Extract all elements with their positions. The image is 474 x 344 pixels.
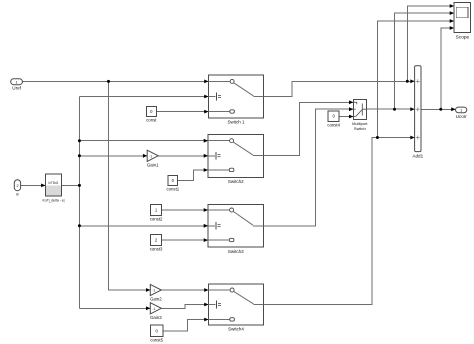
- svg-text:2: 2: [16, 184, 18, 188]
- svg-text:lnTBd1: lnTBd1: [48, 181, 58, 185]
- svg-text:-1: -1: [149, 154, 152, 158]
- svg-text:Gain1: Gain1: [147, 162, 159, 167]
- svg-text:Gain2: Gain2: [150, 297, 162, 302]
- svg-text:1: 1: [16, 80, 18, 84]
- svg-text:Scope: Scope: [456, 35, 470, 41]
- svg-text:Gain3: Gain3: [150, 315, 162, 320]
- svg-text:Switch2: Switch2: [228, 179, 244, 184]
- svg-text:-1: -1: [152, 289, 155, 293]
- svg-text:const3: const3: [150, 247, 163, 252]
- svg-text:const2: const2: [150, 217, 163, 222]
- svg-text:-1: -1: [152, 307, 155, 311]
- svg-text:Ucorr: Ucorr: [456, 114, 468, 119]
- svg-text:const4: const4: [327, 123, 340, 128]
- svg-text:Add1: Add1: [412, 154, 423, 159]
- svg-text:const1: const1: [167, 187, 180, 192]
- svg-text:Switch4: Switch4: [228, 327, 244, 332]
- svg-text:e: e: [16, 192, 19, 197]
- svg-text:Switch3: Switch3: [228, 249, 244, 254]
- svg-text:Switch: Switch: [354, 126, 366, 131]
- svg-text:1: 1: [460, 109, 462, 113]
- svg-text:Uref: Uref: [12, 85, 21, 90]
- svg-text:const5: const5: [150, 338, 163, 343]
- svg-text:const: const: [146, 118, 157, 123]
- svg-text:Switch 1: Switch 1: [227, 120, 245, 125]
- svg-text:KoT|_delta - e|: KoT|_delta - e|: [42, 198, 64, 202]
